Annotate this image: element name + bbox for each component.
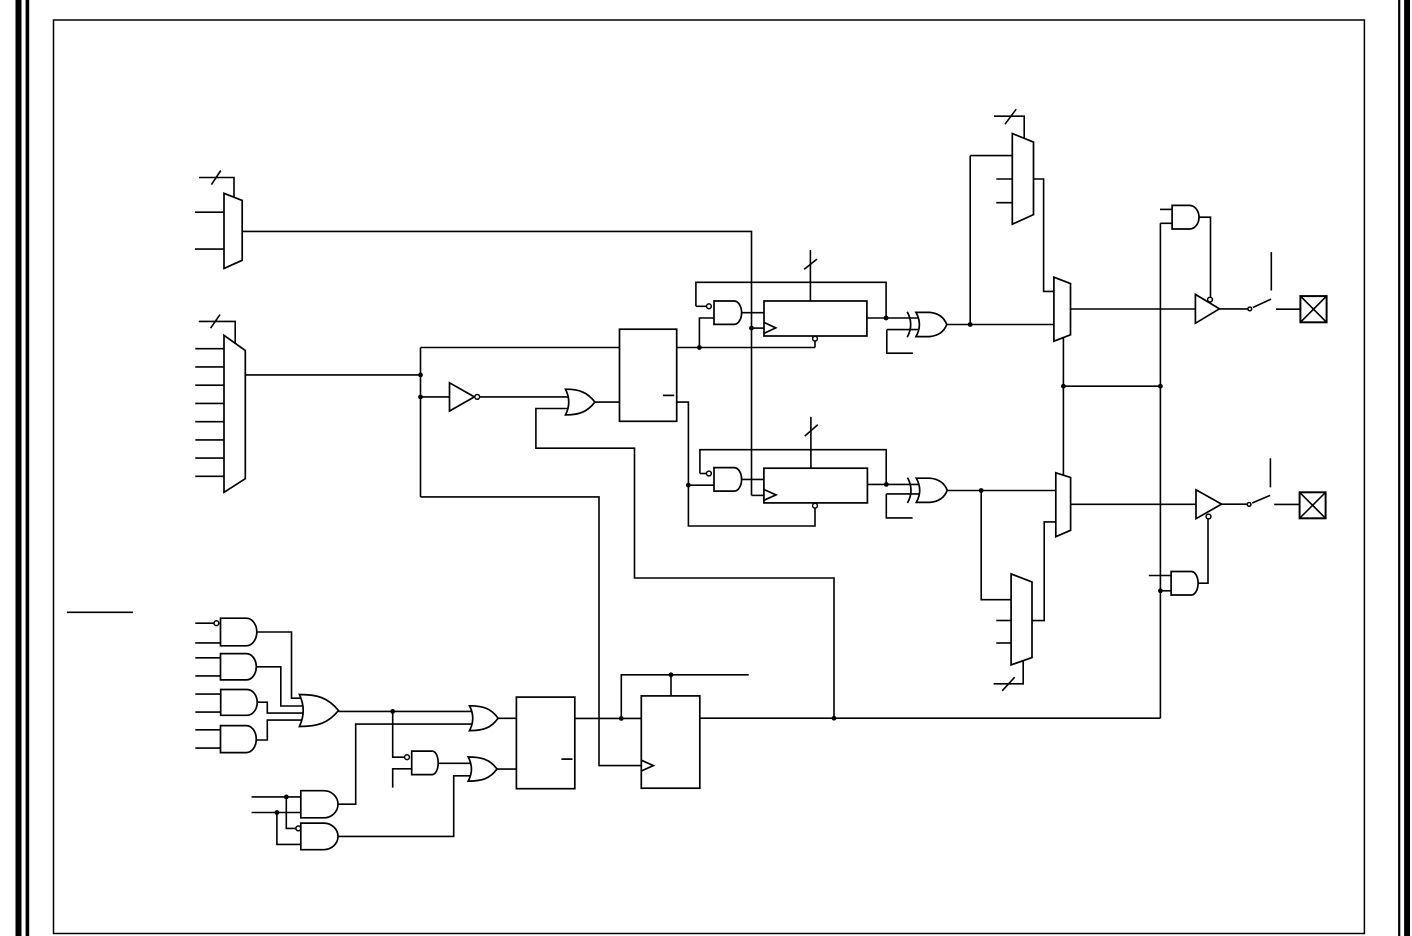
wire ND2 feedback loop top xyxy=(700,450,886,485)
wire input B1 upper xyxy=(252,796,301,798)
wire X1 output xyxy=(947,324,1054,326)
wire M3 output to buffer B1 xyxy=(1071,308,1196,310)
bubble B1 enable xyxy=(1208,297,1213,302)
wire NDC output to ORB xyxy=(438,762,470,764)
junction ND1 feedback tap xyxy=(697,345,702,350)
wire input stub M2 pin6 xyxy=(195,439,224,441)
wire input stub AND T1 upper xyxy=(1160,208,1172,210)
wire A2 output to OR2 xyxy=(256,667,303,706)
junction enable trunk T2 tap xyxy=(1158,588,1163,593)
bus slash on M6 select xyxy=(1002,677,1015,691)
wire input stub M6 pin2 xyxy=(996,620,1011,622)
bubble FF1 async xyxy=(813,336,818,341)
wire M3-M4 shared select xyxy=(1062,336,1064,477)
wire input stub A2 upper xyxy=(195,657,220,659)
wire select of MUX M5 xyxy=(994,116,1024,140)
wire R2 preset loop xyxy=(621,675,748,719)
inverter IV1 xyxy=(450,383,475,411)
wire NAND NDC bubble feed xyxy=(393,711,405,757)
wire input stub A1 lower xyxy=(195,642,220,644)
junction ORA feedback node xyxy=(832,716,837,721)
latch L1 xyxy=(620,329,677,421)
wire A1 output to OR2 xyxy=(257,632,303,698)
junction X1 output node xyxy=(968,322,973,327)
wire M6 output up to M4 input xyxy=(1032,522,1056,621)
wire node-A vertical bus xyxy=(420,348,422,497)
wire NAND B2 output riser to ORB xyxy=(338,776,470,837)
wire NDC lower input stub xyxy=(393,769,412,788)
or-gate ORB xyxy=(468,757,497,781)
wire input stub M5 pin2 xyxy=(996,178,1012,180)
wire R1 output to R2 input xyxy=(575,717,642,719)
switch SW1 contact xyxy=(1248,307,1252,311)
bubble ND2 input xyxy=(707,471,712,476)
wire ORA output to latch R1 xyxy=(498,717,516,719)
xor X1 xyxy=(916,312,947,336)
wire latch L1 data input xyxy=(421,347,620,349)
latch R1 xyxy=(516,697,574,789)
wire AND T1 output to B1 enable xyxy=(1199,217,1211,297)
wire tap to NAND B2 lower input xyxy=(277,813,301,845)
wire SW1 to pad xyxy=(1276,308,1300,310)
or-gate ORA2 xyxy=(470,706,499,731)
wire input stub A4 lower xyxy=(195,747,220,749)
bubble B2 enable xyxy=(1206,514,1211,519)
wire reference tick mark xyxy=(67,611,133,613)
wire M5 input pin1 xyxy=(970,155,1012,157)
wire R2 preset drop xyxy=(670,675,672,696)
wire input stub M2 pin7 xyxy=(195,457,224,459)
junction B1L lower node xyxy=(275,810,280,815)
wire input stub AND T2 upper xyxy=(1149,575,1171,577)
and-gate A3 xyxy=(221,690,258,716)
dff R2 clock triangle xyxy=(641,760,653,771)
buffer B1 xyxy=(1195,294,1219,323)
wire input stub A3 lower xyxy=(195,711,220,713)
wire input stub A2 lower xyxy=(195,675,220,677)
dff R2 xyxy=(641,696,700,788)
junction ND2 feedback tap xyxy=(686,483,691,488)
wire ORB output to latch R1 xyxy=(497,768,516,770)
output pad P1 xyxy=(1300,296,1326,322)
dff FF1 clock triangle xyxy=(764,322,776,333)
latch L1 inverted-output dash xyxy=(663,394,674,396)
bus slash on FF1 input xyxy=(804,259,817,269)
wire ND2 output xyxy=(742,478,764,480)
wire XOR X2 lower input xyxy=(886,493,921,495)
latch R1 inverted-output dash xyxy=(561,758,572,760)
switch SW2 lever xyxy=(1252,495,1270,503)
junction OR2 output node xyxy=(390,709,395,714)
wire input stub M5 pin3 xyxy=(996,202,1012,204)
wire L1 Qbar output run xyxy=(677,402,815,526)
or-gate OR2 xyxy=(299,695,338,727)
wire AND T2 output to B2 enable xyxy=(1198,519,1208,583)
wire A4 output to OR2 xyxy=(256,720,302,740)
mux M1 xyxy=(224,193,242,268)
wire riser to MUX M5 input xyxy=(969,156,971,325)
wire AND T2 lower input xyxy=(1160,590,1171,592)
wire X2 constant stub xyxy=(886,494,912,518)
wire inverter output to OR gate xyxy=(480,396,570,398)
wire OR2 output to ORA xyxy=(339,710,473,712)
bubble A1 input xyxy=(214,621,219,626)
wire A3 output to OR2 xyxy=(257,702,303,713)
wire AND T1 lower input xyxy=(1160,222,1172,224)
wire SW2 to pad xyxy=(1274,503,1299,505)
junction FF1 clock tap xyxy=(749,326,754,331)
wire input stub M2 pin5 xyxy=(195,421,224,423)
nand NDC xyxy=(412,751,439,775)
wire select of MUX M6 xyxy=(994,659,1024,684)
wire input stub M2 pin4 xyxy=(195,402,224,404)
junction select node left xyxy=(1061,384,1066,389)
and-gate T1 xyxy=(1172,205,1199,229)
wire input stub M2 pin8 xyxy=(195,475,224,477)
wire inverter input xyxy=(421,396,450,398)
mux M2 xyxy=(224,335,245,492)
wire input stub M6 pin3 xyxy=(996,642,1011,644)
wire M1 output to clock trunk xyxy=(242,231,751,495)
dff FF2 clock triangle xyxy=(764,490,776,501)
wire FF1 Q output xyxy=(867,317,921,319)
wire ND1 feedback loop top xyxy=(696,282,886,318)
nand ND2 xyxy=(714,468,742,492)
wire R2 clock run xyxy=(421,497,642,766)
wire input stub M1 pin1 xyxy=(195,211,224,213)
junction B1L upper node xyxy=(284,795,289,800)
junction X2 output node xyxy=(979,488,984,493)
switch SW2 contact xyxy=(1247,503,1251,507)
switch SW2 terminal xyxy=(1269,458,1271,487)
buffer B2 xyxy=(1196,490,1222,519)
dff FF1 xyxy=(764,301,867,336)
junction R1-R2 node xyxy=(619,716,624,721)
junction R2 preset node xyxy=(669,672,674,677)
junction FF2 Q node xyxy=(884,482,889,487)
wire M4 output to buffer B2 xyxy=(1071,503,1196,505)
bubble B2L input xyxy=(296,826,301,831)
mux M4 xyxy=(1056,473,1071,537)
mux M6 xyxy=(1011,574,1032,665)
wire M5 output down to M3 xyxy=(1034,179,1054,291)
xor X2 xyxy=(916,478,947,502)
bubble NDC input xyxy=(405,755,410,760)
nand ND1 xyxy=(714,301,742,324)
xor X2 input arc xyxy=(908,478,912,503)
wire X2 output xyxy=(947,490,1056,492)
wire NAND ND1 lower input xyxy=(699,318,714,348)
wire X1 constant stub xyxy=(887,330,913,354)
or-gate ORA xyxy=(566,389,595,415)
junction FF1 Q node xyxy=(884,316,889,321)
mux M5 xyxy=(1012,134,1033,225)
wire select tap to enable trunk xyxy=(1063,385,1160,387)
wire input B1 lower xyxy=(252,812,301,814)
wire B1 output xyxy=(1219,308,1248,310)
wire input stub A1 upper xyxy=(195,622,214,624)
wire ND1 bubble stub xyxy=(696,305,707,307)
mux M3 xyxy=(1054,277,1071,341)
wire ND2 bubble stub xyxy=(700,473,707,475)
junction select node right xyxy=(1158,384,1163,389)
wire input stub M2 pin2 xyxy=(195,366,224,368)
bus slash on FF2 input xyxy=(805,425,818,436)
and-gate B1L xyxy=(301,791,338,818)
wire input stub M2 pin3 xyxy=(195,384,224,386)
wire input stub A4 upper xyxy=(195,729,220,731)
bus slash on M5 select xyxy=(1005,109,1016,124)
wire OR ORA output to latch L1 xyxy=(595,401,620,403)
wire input stub M1 pin2 xyxy=(195,248,224,250)
junction inverter tap node xyxy=(418,395,423,400)
switch SW1 lever xyxy=(1253,299,1271,307)
dff FF2 xyxy=(764,468,868,503)
and-gate T2 xyxy=(1171,572,1198,596)
wire select of MUX M1 xyxy=(199,178,234,200)
and-gate A2 xyxy=(221,654,257,680)
wire L1 Q output xyxy=(677,347,815,349)
wire FF1 async bubble riser xyxy=(814,341,816,348)
wire FF1 bus input xyxy=(809,250,811,301)
bubble ND1 input xyxy=(707,304,712,309)
output pad P2 xyxy=(1300,492,1326,518)
xor X1 input arc xyxy=(907,312,911,337)
nand B2L xyxy=(301,823,338,850)
wire FF2 clock stub xyxy=(752,494,764,496)
wire AND B1 output riser to ORA xyxy=(338,724,472,804)
bus slash on M1 select xyxy=(211,171,220,185)
bubble FF2 async xyxy=(813,503,818,508)
and-gate A4 xyxy=(221,726,257,753)
wire FF2 Q output xyxy=(867,483,921,485)
wire NAND ND2 lower input xyxy=(688,484,714,486)
wire XOR X1 lower input xyxy=(887,329,921,331)
wire input stub A3 upper xyxy=(195,693,220,695)
wire enable trunk vertical xyxy=(1159,223,1161,718)
wire tap to NAND B2 bubble xyxy=(286,797,296,829)
wire ND1 output xyxy=(742,312,764,314)
junction M2 output node xyxy=(418,373,423,378)
wire input stub M2 pin1 xyxy=(195,348,224,350)
wire FF2 bus input xyxy=(810,417,812,468)
wire FF1 clock stub xyxy=(752,327,765,329)
wire select of MUX M2 xyxy=(199,321,235,345)
and-gate A1 xyxy=(221,618,257,646)
wire OR ORA lower input riser xyxy=(536,409,834,719)
wire B2 output xyxy=(1222,503,1248,505)
wire M2 output xyxy=(245,374,420,376)
switch SW1 terminal xyxy=(1270,252,1272,290)
bus slash on M2 select xyxy=(211,315,220,329)
bubble inverter IV1 output xyxy=(475,395,480,400)
wire X2 junction to MUX M6 input xyxy=(981,491,1011,600)
wire R2 output to enable trunk xyxy=(700,717,1161,719)
